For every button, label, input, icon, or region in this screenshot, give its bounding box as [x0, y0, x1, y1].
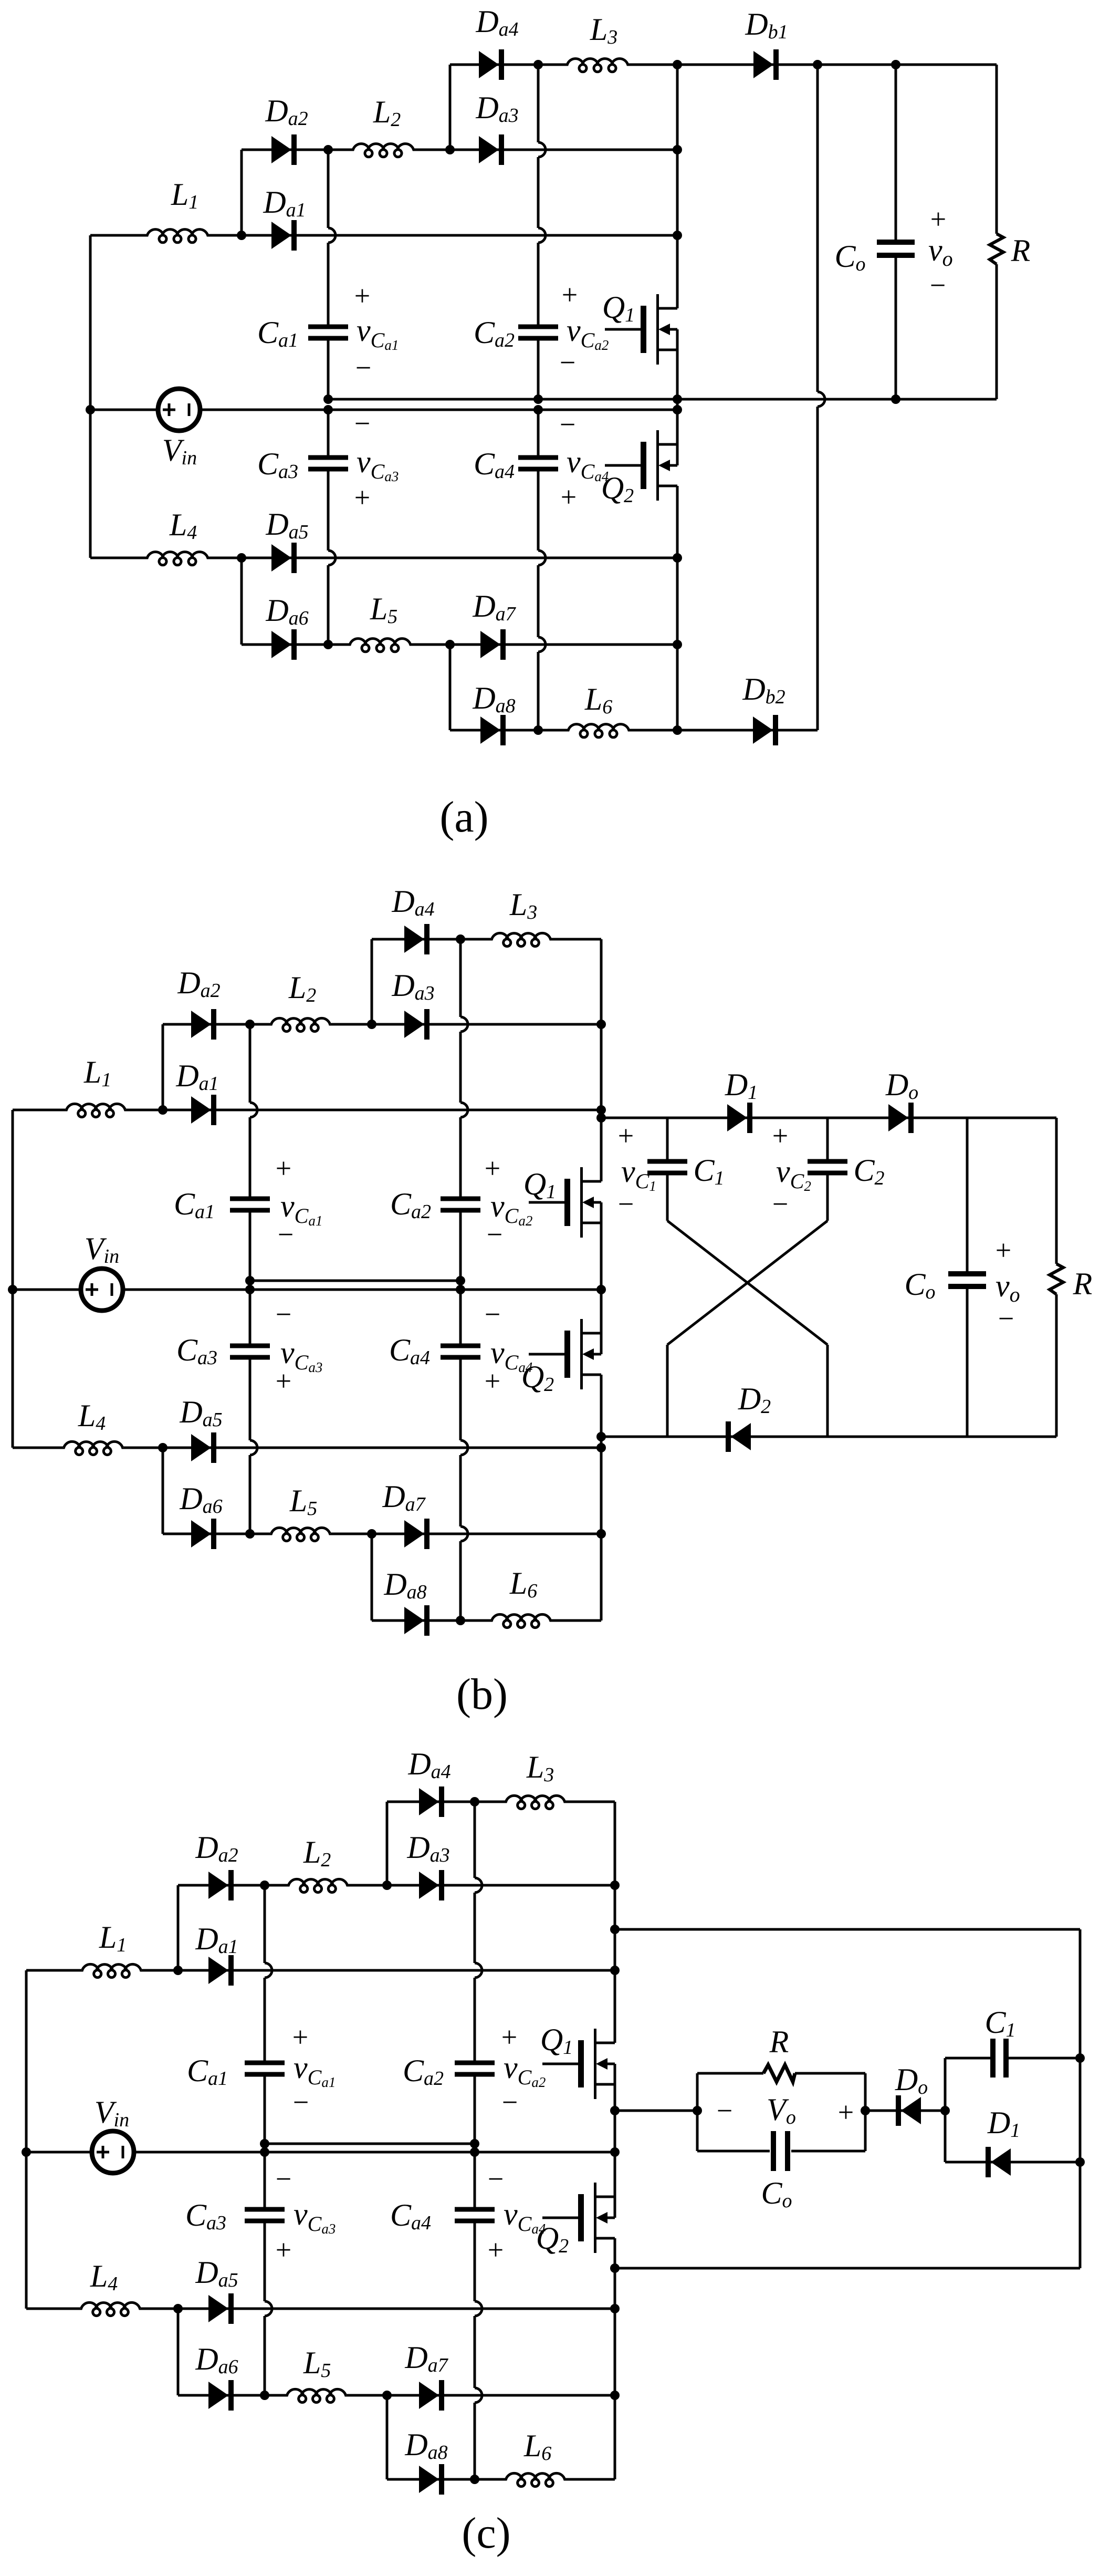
svg-text:+: + [772, 1120, 788, 1151]
svg-text:−: − [276, 1299, 291, 1330]
svg-text:−: − [717, 2095, 732, 2126]
svg-text:−: − [355, 352, 371, 383]
svg-text:−: − [293, 2086, 309, 2118]
svg-text:(a): (a) [439, 793, 488, 842]
svg-text:+: + [276, 2234, 291, 2266]
svg-text:+: + [996, 1234, 1011, 1266]
svg-text:(b): (b) [456, 1670, 508, 1719]
svg-text:−: − [560, 409, 575, 440]
svg-text:−: − [276, 2163, 291, 2195]
svg-text:−: − [487, 1219, 502, 1250]
svg-text:+: + [930, 203, 946, 235]
svg-text:+: + [562, 279, 578, 310]
svg-text:−: − [354, 408, 370, 439]
svg-text:−: − [488, 2163, 504, 2195]
svg-text:−: − [485, 1299, 500, 1330]
svg-text:+: + [276, 1365, 291, 1397]
svg-text:+: + [488, 2234, 504, 2266]
svg-text:−: − [502, 2086, 518, 2118]
svg-text:+: + [276, 1152, 291, 1184]
svg-text:R: R [1073, 1266, 1093, 1301]
svg-text:+: + [501, 2021, 517, 2053]
svg-text:+: + [354, 482, 370, 513]
svg-text:−: − [278, 1219, 294, 1250]
svg-text:−: − [618, 1188, 634, 1220]
svg-text:(c): (c) [462, 2509, 510, 2558]
svg-text:−: − [998, 1303, 1014, 1334]
svg-text:+: + [485, 1152, 500, 1184]
svg-text:+: + [354, 280, 370, 311]
svg-text:R: R [1011, 233, 1031, 268]
svg-text:+: + [561, 481, 577, 513]
svg-text:R: R [769, 2024, 789, 2059]
svg-text:−: − [560, 347, 575, 378]
svg-text:−: − [930, 269, 946, 301]
svg-text:−: − [772, 1188, 788, 1220]
svg-text:+: + [838, 2096, 854, 2128]
svg-text:+: + [292, 2021, 308, 2053]
svg-text:+: + [485, 1365, 500, 1397]
svg-text:+: + [618, 1120, 634, 1151]
